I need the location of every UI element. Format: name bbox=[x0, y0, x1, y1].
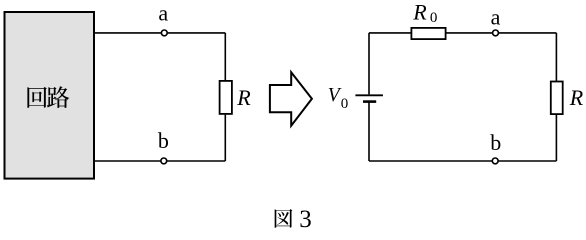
svg-text:0: 0 bbox=[430, 10, 438, 26]
svg-text:V: V bbox=[328, 85, 342, 106]
svg-text:R: R bbox=[412, 0, 427, 24]
svg-text:a: a bbox=[158, 0, 168, 25]
svg-text:b: b bbox=[158, 128, 169, 153]
svg-text:a: a bbox=[491, 5, 501, 30]
svg-text:3: 3 bbox=[299, 206, 312, 233]
svg-text:0: 0 bbox=[341, 96, 349, 112]
svg-text:b: b bbox=[490, 130, 501, 155]
svg-text:R: R bbox=[569, 85, 584, 110]
svg-text:R: R bbox=[236, 85, 251, 110]
